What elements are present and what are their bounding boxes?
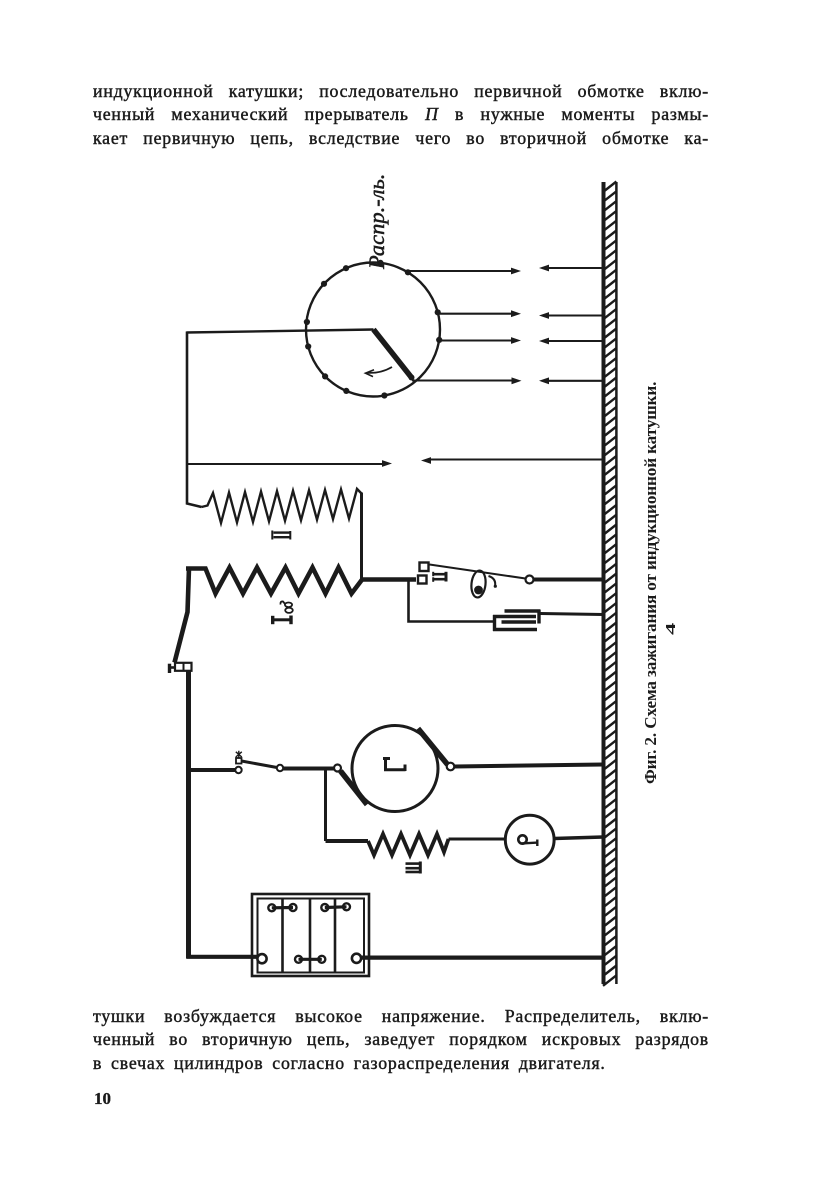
common link between coils xyxy=(360,493,363,581)
wire battery to wall xyxy=(361,955,603,959)
breaker lever xyxy=(430,565,526,579)
spark wire row 4 left segment xyxy=(412,379,513,381)
shunt resistor zigzag xyxy=(368,834,449,855)
row 2 wall segment xyxy=(547,314,602,316)
ignition switch box xyxy=(175,663,192,671)
wire to shunt resistor xyxy=(326,839,369,843)
row 3 left arrowhead xyxy=(539,338,549,345)
row 1 left arrowhead xyxy=(539,265,549,272)
generator brush lower left xyxy=(341,771,368,805)
switch K star mark xyxy=(236,751,242,758)
condenser right connector xyxy=(537,610,540,624)
ammeter label Р xyxy=(518,835,526,843)
wire condenser to wall xyxy=(541,614,604,615)
wire breaker to wall xyxy=(534,578,604,582)
condenser plate A top line xyxy=(505,609,541,612)
row 2 right arrowhead xyxy=(511,310,521,317)
breaker cam xyxy=(470,570,487,598)
svg-text:4: 4 xyxy=(663,623,678,635)
spark wire row 2 left segment xyxy=(439,313,514,315)
svg-text:Фиг. 2. Схема зажигания от инд: Фиг. 2. Схема зажигания от индукционной … xyxy=(641,382,660,784)
breaker moving contact square xyxy=(418,576,427,584)
battery terminal right xyxy=(352,954,361,963)
wire coil I down to ignition switch xyxy=(175,568,190,663)
row 4 left arrowhead xyxy=(539,377,549,384)
primary coil I xyxy=(186,568,363,594)
label II xyxy=(272,531,290,540)
rotation arrow inside distributor xyxy=(368,367,393,373)
condenser plate B upper line xyxy=(493,615,536,618)
rotor tip dot xyxy=(409,375,415,381)
battery inner case xyxy=(258,899,365,973)
generator brush upper right xyxy=(418,729,448,765)
wire main to battery xyxy=(187,955,258,959)
ignition switch bar xyxy=(168,664,171,673)
battery plate line 3 xyxy=(334,899,337,973)
condenser plate A lower line xyxy=(502,620,537,623)
row 3 right arrowhead xyxy=(511,337,521,344)
secondary left vertical wire xyxy=(187,332,202,508)
condenser left connector xyxy=(493,615,496,631)
secondary gap wall wire with arrow xyxy=(429,459,602,461)
ignition switch connector tick xyxy=(171,666,176,669)
secondary coil II xyxy=(202,489,362,523)
ammeter circle xyxy=(505,815,554,864)
battery outer case xyxy=(252,894,369,976)
switch K fixed contact square xyxy=(236,758,242,764)
branch down to shunt xyxy=(324,768,327,841)
wire ammeter to wall xyxy=(554,837,603,839)
battery plate line 1 xyxy=(281,899,284,973)
battery strap top left xyxy=(268,904,296,911)
cam shaft dot xyxy=(474,586,483,595)
ignition switch box divider xyxy=(183,663,185,671)
generator terminal right xyxy=(447,763,455,771)
engine block wall left line xyxy=(602,182,606,984)
battery strap top right xyxy=(321,903,350,911)
wall hatching xyxy=(603,182,616,986)
branch wire to condenser xyxy=(409,581,494,622)
generator terminal left xyxy=(334,765,341,772)
wire to switch K xyxy=(189,768,236,772)
row 1 wall segment xyxy=(547,267,602,269)
generator body circle xyxy=(352,726,438,812)
row 1 right arrowhead xyxy=(511,268,521,275)
svg-text:Распр.-ль.: Распр.-ль. xyxy=(364,174,389,270)
engine block wall right line xyxy=(615,182,618,984)
wire shunt to ammeter xyxy=(449,838,506,841)
row 4 right arrowhead xyxy=(512,377,522,384)
wire coil I to breaker xyxy=(362,577,416,581)
spark wire row 1 left segment xyxy=(408,270,513,272)
row 3 wall segment xyxy=(547,340,602,342)
breaker pivot xyxy=(526,576,534,584)
spark wire row 3 left segment xyxy=(440,339,513,341)
label Ш xyxy=(406,862,421,874)
battery terminal left xyxy=(257,954,266,963)
distributor contact dots xyxy=(304,260,443,399)
battery strap bottom middle xyxy=(295,956,325,963)
label П xyxy=(433,572,446,582)
generator label Г xyxy=(383,759,406,772)
battery plate line 2 xyxy=(309,899,312,973)
switch K left contact xyxy=(235,767,241,773)
wire from coil II to distributor rotor center xyxy=(187,330,374,333)
breaker fixed contact square xyxy=(420,563,429,572)
wire switch K to generator xyxy=(283,767,334,771)
label I об xyxy=(273,601,293,624)
condenser plate B bottom line xyxy=(493,628,537,631)
wire generator to wall xyxy=(455,765,604,767)
row 2 left arrowhead xyxy=(539,312,549,319)
distributor body circle xyxy=(306,263,440,397)
secondary gap left wire with arrow xyxy=(188,463,384,465)
cam motion arc xyxy=(489,576,496,587)
row 4 wall segment xyxy=(547,380,602,382)
main left vertical wire xyxy=(186,671,191,959)
switch K lever xyxy=(242,761,278,768)
distributor rotor arm xyxy=(374,330,412,378)
switch K right contact xyxy=(277,765,283,771)
